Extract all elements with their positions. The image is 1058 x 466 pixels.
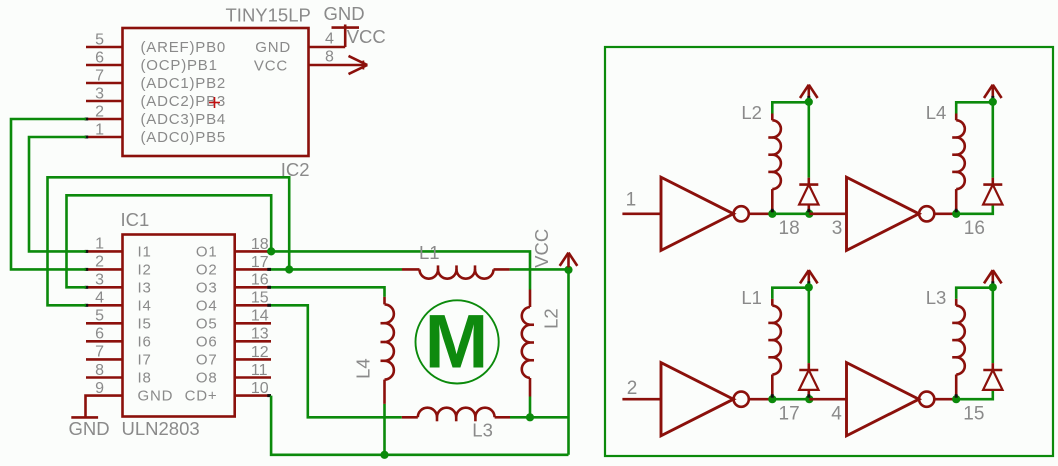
IC1 pin 16 O3: [235, 286, 271, 289]
power symbol VCC arrow (main): [531, 229, 577, 268]
svg-text:(ADC0)PB5: (ADC0)PB5: [141, 129, 227, 146]
wire IC1 pin16 to L4 top: [271, 287, 385, 297]
svg-text:3: 3: [95, 85, 104, 102]
svg-text:O5: O5: [196, 315, 218, 332]
svg-text:VCC: VCC: [531, 229, 552, 268]
ground symbol GND at IC1 pin9: [69, 396, 110, 439]
svg-text:L4: L4: [353, 358, 374, 379]
power symbol VCC arrow (detail top-right): [984, 85, 1002, 101]
IC1 pin 6 I6: [86, 340, 123, 343]
IC1 pin 5 I5: [86, 322, 123, 325]
svg-text:16: 16: [964, 218, 985, 239]
junction dot VCC bottom-right: [989, 283, 997, 291]
motor M1 circle: [416, 300, 499, 383]
svg-text:L4: L4: [926, 102, 947, 123]
wire IC1 pin4 to node O2: [48, 177, 290, 305]
IC1 right pin numbers: [251, 236, 269, 397]
wire IC1 pin3 to node O1: [67, 195, 272, 287]
IC1 pin 3 I3: [85, 286, 123, 289]
svg-text:ULN2803: ULN2803: [122, 418, 200, 439]
svg-text:1: 1: [626, 189, 637, 210]
IC2 pin 8 (VCC): [309, 49, 368, 66]
svg-text:IC1: IC1: [121, 209, 150, 230]
IC1 pin 7 I7: [86, 358, 123, 361]
inductor L2: [522, 290, 534, 397]
wire node 18: [772, 213, 809, 216]
svg-text:11: 11: [251, 362, 268, 379]
IC2 pin numbers left: [95, 31, 104, 138]
IC1 pin 12 O7: [235, 358, 271, 361]
IC1 pin 18 O1: [235, 250, 271, 253]
svg-text:(ADC1)PB2: (ADC1)PB2: [141, 75, 227, 92]
IC1 pin names: [138, 243, 218, 404]
svg-text:6: 6: [95, 49, 104, 66]
svg-text:I1: I1: [138, 243, 152, 260]
svg-text:2: 2: [95, 103, 104, 120]
junction dot VCC top-left: [805, 98, 813, 106]
svg-text:17: 17: [779, 403, 800, 424]
svg-text:7: 7: [95, 67, 104, 84]
svg-text:GND: GND: [323, 3, 364, 24]
svg-text:I5: I5: [138, 315, 152, 332]
junction dot pin17: [285, 265, 293, 273]
IC1 pin 9 GND: [86, 394, 123, 397]
junction dot bottom rail L4: [380, 451, 388, 459]
IC2 origin cross: [209, 97, 220, 108]
diode D2: [983, 102, 1002, 204]
svg-text:M: M: [425, 299, 489, 384]
junction dot VCC node: [564, 266, 572, 274]
svg-text:(OCP)PB1: (OCP)PB1: [141, 57, 218, 74]
wire node O2 pin17 to L1 left: [271, 268, 402, 271]
svg-text:14: 14: [251, 308, 269, 325]
svg-text:4: 4: [831, 403, 842, 424]
svg-text:L3: L3: [472, 420, 493, 441]
svg-text:VCC: VCC: [347, 26, 386, 47]
power symbol VCC arrow (detail top-left): [800, 85, 818, 101]
svg-text:12: 12: [251, 344, 269, 361]
junction dot pin18: [267, 247, 275, 255]
svg-text:8: 8: [325, 49, 334, 66]
svg-text:15: 15: [251, 290, 269, 307]
IC2 pin 7 (PB2): [86, 82, 123, 85]
svg-text:L2: L2: [541, 308, 562, 329]
svg-text:17: 17: [251, 254, 269, 271]
svg-text:18: 18: [251, 236, 269, 253]
svg-text:9: 9: [95, 380, 104, 397]
svg-text:L2: L2: [741, 102, 762, 123]
svg-text:TINY15LP: TINY15LP: [226, 5, 311, 26]
svg-text:VCC: VCC: [254, 57, 288, 74]
svg-text:O2: O2: [196, 261, 218, 278]
svg-text:1: 1: [95, 236, 104, 253]
inverter U2C (input 2): [622, 363, 772, 436]
inductor L3: [402, 408, 510, 422]
diode D4: [983, 288, 1002, 390]
inductor L4 (detail): [952, 102, 993, 212]
svg-text:18: 18: [779, 218, 800, 239]
svg-text:I2: I2: [138, 261, 152, 278]
svg-text:5: 5: [95, 308, 104, 325]
svg-text:16: 16: [251, 272, 269, 289]
junction dot inverter1 output: [768, 210, 776, 218]
svg-text:3: 3: [95, 272, 104, 289]
svg-text:2: 2: [95, 254, 104, 271]
svg-text:L1: L1: [419, 242, 440, 263]
inductor L2 (detail): [768, 102, 809, 212]
IC1 pin 1 I1: [85, 250, 123, 253]
IC1 pin 10 CD+: [235, 394, 271, 397]
wire node 15: [956, 390, 993, 399]
svg-text:6: 6: [95, 326, 104, 343]
wire node 17: [772, 398, 809, 401]
svg-text:L1: L1: [741, 287, 762, 308]
junction dot VCC bottom-left: [805, 283, 813, 291]
junction dot inverter2 output: [952, 210, 960, 218]
IC1 pin 11 O8: [235, 376, 271, 379]
IC IC1 ULN2803 body: [123, 235, 235, 417]
IC1 pin 15 O4: [235, 304, 271, 307]
svg-text:O8: O8: [196, 370, 218, 387]
svg-text:O7: O7: [196, 351, 218, 368]
svg-text:O4: O4: [196, 297, 218, 314]
junction dot inverter3 output: [768, 395, 776, 403]
wire node O1 pin18 to L2 top: [271, 251, 530, 289]
wire L4 bottom to bottom rail: [383, 404, 386, 455]
inductor L1: [402, 265, 510, 278]
svg-text:(ADC2)PB3: (ADC2)PB3: [141, 93, 227, 110]
IC2 pin 6 (PB1): [86, 64, 123, 67]
svg-text:O3: O3: [196, 279, 218, 296]
power symbol VCC arrow (detail bottom-right): [984, 270, 1002, 286]
IC1 pin 8 I8: [86, 376, 123, 379]
svg-text:I8: I8: [138, 370, 152, 387]
svg-text:O1: O1: [196, 243, 218, 260]
IC1 pin 13 O6: [235, 340, 271, 343]
svg-text:L3: L3: [926, 287, 947, 308]
junction dot L2 bottom L3 right: [526, 413, 534, 421]
svg-text:10: 10: [251, 380, 269, 397]
svg-text:4: 4: [95, 290, 104, 307]
svg-text:5: 5: [95, 31, 104, 48]
svg-text:15: 15: [963, 403, 984, 424]
IC2 pin 4 (GND): [309, 31, 346, 48]
svg-text:O6: O6: [196, 333, 218, 350]
wire IC1 pin10 CD+ to bottom rail: [271, 396, 568, 455]
svg-text:I3: I3: [138, 279, 152, 296]
wire node 16: [956, 205, 993, 214]
wire IC2 pin2 to IC1 pin2: [11, 119, 86, 269]
inverter U2D (input 4): [809, 363, 956, 436]
wire L1 right to VCC node: [510, 268, 569, 271]
svg-text:8: 8: [95, 362, 104, 379]
svg-text:3: 3: [832, 218, 843, 239]
IC2 pin 5 (PB0): [86, 46, 123, 49]
power symbol VCC at IC2 pin8 (arrow right): [347, 26, 386, 74]
inductor L3 (detail): [952, 288, 993, 398]
svg-text:I6: I6: [138, 333, 152, 350]
IC IC2 TINY15LP body: [123, 28, 309, 156]
svg-text:I7: I7: [138, 351, 152, 368]
inductor L4: [381, 297, 394, 404]
junction dot diode3 anode: [805, 395, 813, 403]
power symbol VCC arrow (detail bottom-left): [800, 270, 818, 286]
IC2 pin 2 (PB4): [85, 118, 123, 121]
wire L2 bottom to junction: [529, 397, 532, 418]
inductor L1 (detail): [768, 288, 809, 398]
IC2 pin names: [141, 39, 292, 146]
diode D1: [799, 102, 818, 212]
diode D3: [799, 288, 818, 398]
svg-text:1: 1: [95, 121, 104, 138]
svg-text:GND: GND: [255, 39, 291, 56]
ground symbol GND at IC2 pin4: [323, 3, 364, 47]
IC1 pin 2 I2: [85, 268, 123, 271]
inverter U2B (input 3): [809, 177, 956, 250]
svg-text:(ADC3)PB4: (ADC3)PB4: [141, 111, 227, 128]
wire VCC riser: [567, 270, 570, 455]
svg-text:I4: I4: [138, 297, 152, 314]
IC1 pin 14 O5: [235, 322, 271, 325]
IC2 pin 3 (PB3): [86, 100, 123, 103]
svg-text:GND: GND: [138, 388, 174, 405]
inverter U2A (input 1): [622, 177, 772, 250]
junction dot diode1 anode: [805, 210, 813, 218]
frame of detail diagram: [605, 47, 1053, 456]
wire IC1 pin15 to L3 left: [271, 305, 402, 417]
svg-text:7: 7: [95, 344, 104, 361]
wire IC2 pin1 to IC1 pin1: [29, 137, 86, 251]
svg-text:CD+: CD+: [185, 388, 218, 405]
IC2 pin 1 (PB5): [85, 136, 123, 139]
svg-text:GND: GND: [69, 418, 110, 439]
junction dot VCC top-right: [989, 98, 997, 106]
IC1 left pin numbers: [95, 236, 104, 397]
IC1 pin 4 I4: [85, 304, 123, 307]
svg-text:13: 13: [251, 326, 269, 343]
svg-text:4: 4: [325, 31, 334, 48]
IC1 pin 17 O2: [235, 268, 271, 271]
wire L3 right to VCC riser: [510, 416, 569, 419]
junction dot inverter4 output: [952, 395, 960, 403]
svg-text:(AREF)PB0: (AREF)PB0: [141, 39, 227, 56]
svg-text:2: 2: [627, 378, 638, 399]
